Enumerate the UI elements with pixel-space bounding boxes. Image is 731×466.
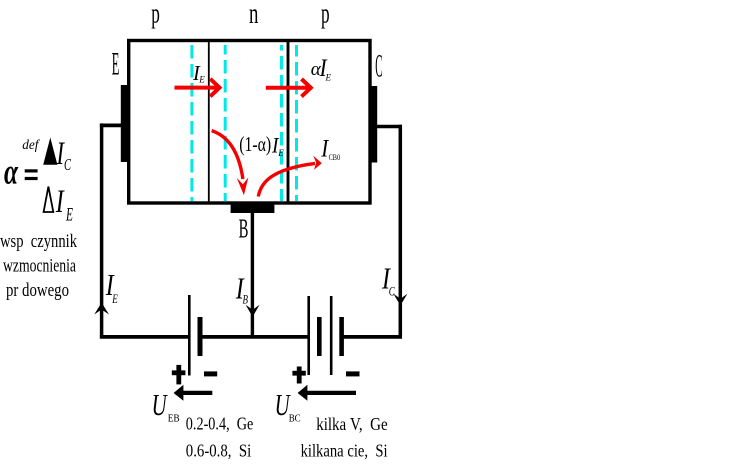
current arrowhead I_E (up) bbox=[94, 303, 109, 315]
battery B2 plus sign bbox=[292, 367, 305, 384]
svg-text:I: I bbox=[55, 184, 65, 220]
collector wire horizontal bbox=[377, 125, 403, 129]
battery B2 minus sign bbox=[346, 371, 360, 376]
svg-text:B: B bbox=[239, 214, 249, 244]
battery B1 plus sign bbox=[172, 365, 186, 385]
svg-text:C: C bbox=[375, 49, 382, 85]
svg-text:pr dowego: pr dowego bbox=[6, 280, 69, 301]
red arrow I_E inside emitter region bbox=[175, 79, 220, 97]
svg-text:p: p bbox=[151, 0, 160, 30]
svg-text:EB: EB bbox=[168, 413, 180, 425]
svg-text:E: E bbox=[198, 75, 205, 85]
label U_EB bbox=[152, 387, 180, 425]
transistor body outline bbox=[129, 41, 370, 204]
bottom wire right segment bbox=[344, 335, 403, 339]
label I_CB0 bbox=[320, 136, 340, 163]
base contact plate bbox=[231, 205, 275, 214]
svg-text:n: n bbox=[249, 0, 258, 30]
voltage arrow U_EB (left pointing) bbox=[174, 385, 213, 401]
label U_BC bbox=[275, 387, 301, 425]
svg-text:E: E bbox=[112, 291, 118, 306]
svg-text:E: E bbox=[65, 205, 73, 226]
svg-text:C: C bbox=[64, 155, 71, 174]
label I_E inside box bbox=[192, 61, 205, 85]
emitter contact plate bbox=[121, 85, 128, 162]
svg-text:C: C bbox=[389, 284, 395, 299]
depletion boundary dashed line 4 bbox=[295, 45, 298, 201]
battery B2 thick plate 2 bbox=[339, 317, 344, 356]
label (1-alpha)I_E bbox=[239, 132, 284, 158]
label I_E bbox=[105, 267, 118, 306]
svg-text:0.2-0.4, Ge: 0.2-0.4, Ge bbox=[186, 414, 254, 434]
svg-text:0.6-0.8, Si: 0.6-0.8, Si bbox=[186, 441, 252, 461]
svg-text:CB0: CB0 bbox=[329, 152, 341, 162]
current arrowhead I_C (down) bbox=[393, 294, 407, 306]
battery B2 thin plate 1 bbox=[307, 296, 310, 375]
svg-text:p: p bbox=[321, 0, 330, 30]
svg-text:kilka V, Ge: kilka V, Ge bbox=[316, 414, 388, 434]
svg-text:B: B bbox=[243, 292, 249, 307]
label I_B bbox=[235, 270, 248, 306]
svg-text:E: E bbox=[277, 148, 284, 158]
svg-text:U: U bbox=[152, 387, 169, 422]
emitter wire horizontal bbox=[100, 124, 122, 128]
depletion boundary dashed line 3 bbox=[280, 45, 283, 201]
svg-text:kilkana cie, Si: kilkana cie, Si bbox=[301, 441, 388, 461]
bottom wire middle segment bbox=[203, 335, 308, 339]
battery B1 thick plate bbox=[198, 317, 203, 356]
red curved arrow I_CBO leakage bbox=[258, 163, 315, 196]
junction line 2 (n-p) bbox=[287, 40, 290, 203]
collector wire vertical bbox=[399, 125, 403, 339]
battery B1 minus sign bbox=[204, 371, 217, 376]
current arrowhead I_B (down) bbox=[246, 305, 260, 317]
svg-text:wsp czynnik: wsp czynnik bbox=[0, 231, 77, 252]
svg-text:def: def bbox=[22, 138, 40, 153]
numerator delta I_C bbox=[43, 136, 71, 174]
battery B1 thin plate bbox=[188, 295, 191, 376]
svg-text:(1-α): (1-α) bbox=[239, 132, 271, 156]
label I_C bbox=[381, 260, 395, 298]
battery B2 thin plate 2 bbox=[330, 296, 333, 375]
emitter wire vertical bbox=[100, 123, 104, 338]
collector contact plate bbox=[371, 86, 377, 163]
depletion boundary dashed line 2 bbox=[224, 45, 227, 201]
denominator delta I_E bbox=[44, 184, 74, 226]
depletion boundary dashed line 1 bbox=[190, 45, 193, 201]
svg-text:E: E bbox=[112, 47, 120, 83]
equals sign bbox=[25, 169, 38, 180]
svg-text:α: α bbox=[4, 152, 19, 192]
svg-text:BC: BC bbox=[289, 413, 301, 425]
bottom wire left segment bbox=[100, 335, 188, 339]
label alpha I_E bbox=[311, 55, 332, 83]
battery B2 thick plate 1 bbox=[317, 317, 322, 356]
red curved arrow (1-alpha)I_E toward base bbox=[212, 131, 243, 179]
svg-text:E: E bbox=[325, 73, 332, 83]
voltage arrow U_BC (left pointing) bbox=[298, 385, 356, 401]
base wire vertical bbox=[251, 213, 254, 339]
svg-text:wzmocnienia: wzmocnienia bbox=[3, 256, 76, 277]
red arrow alpha I_E inside collector region bbox=[266, 79, 311, 97]
junction line 1 (p-n) bbox=[208, 40, 210, 203]
